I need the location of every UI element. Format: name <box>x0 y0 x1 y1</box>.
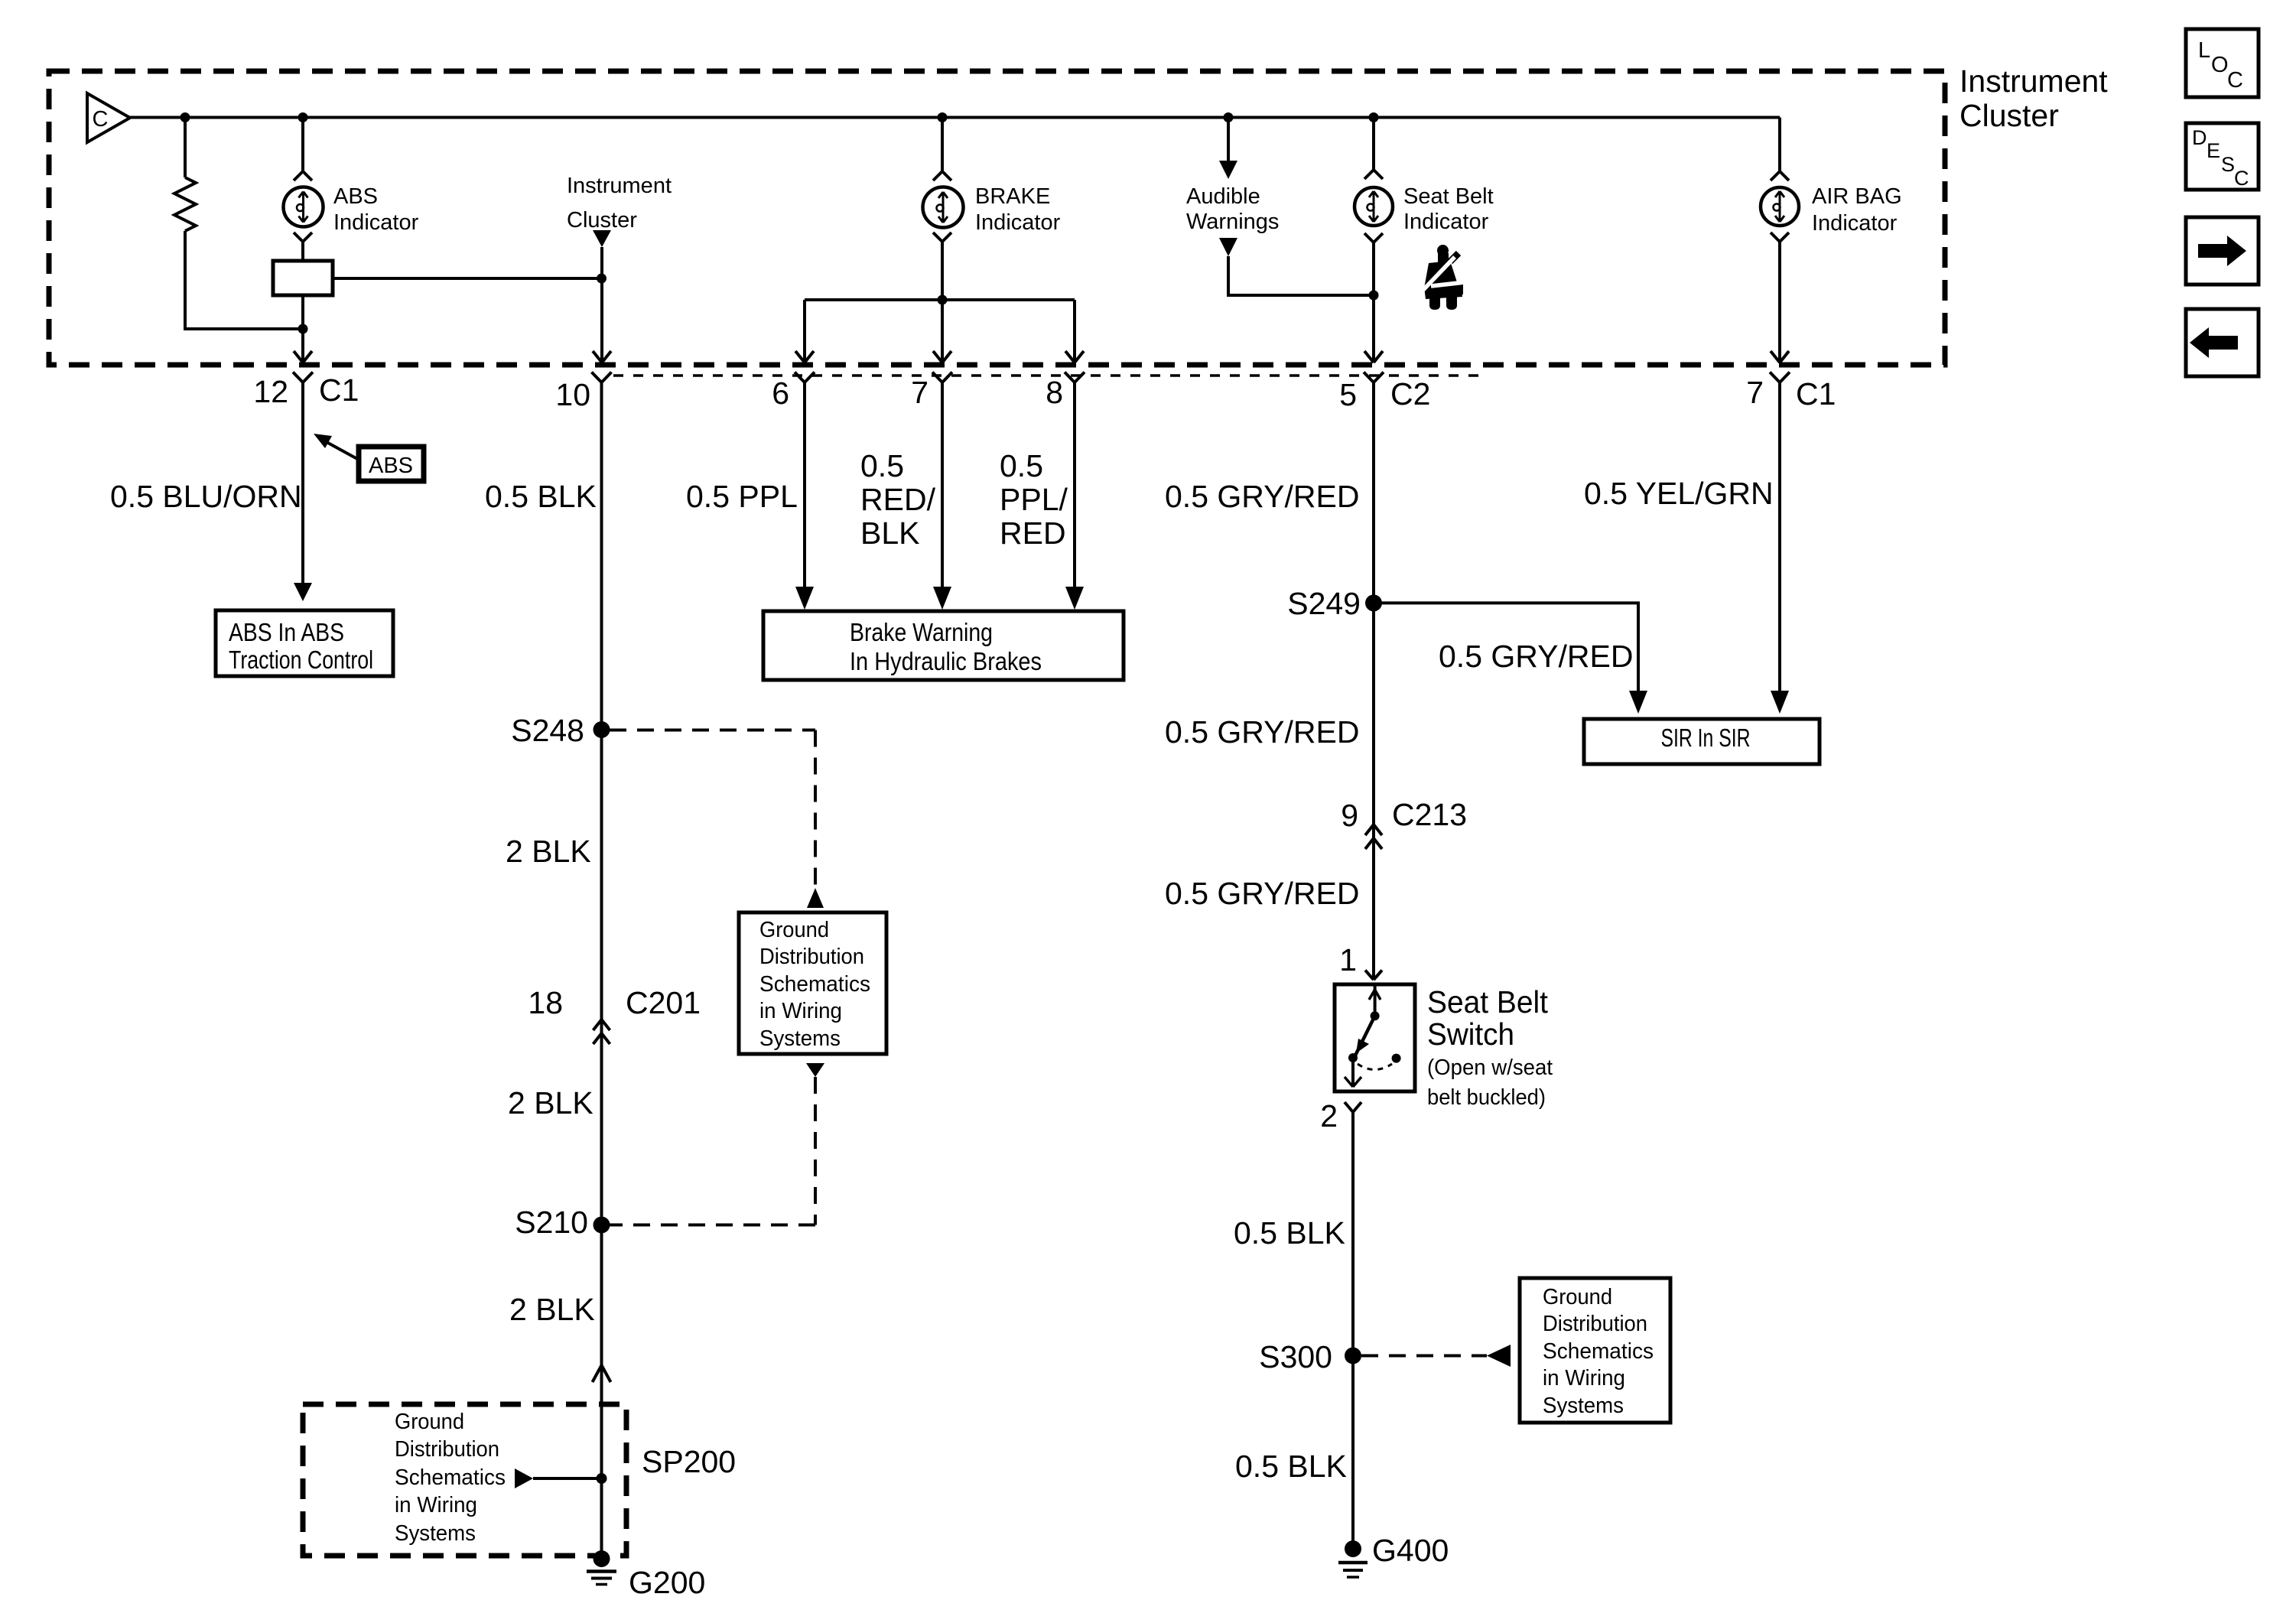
svg-text:1: 1 <box>1339 942 1357 977</box>
dashed link S248 to ground distribution box <box>610 729 815 732</box>
svg-text:0.5 BLU/ORN: 0.5 BLU/ORN <box>110 479 302 514</box>
svg-text:Traction Control: Traction Control <box>229 646 373 674</box>
svg-text:2 BLK: 2 BLK <box>509 1292 595 1327</box>
svg-text:2 BLK: 2 BLK <box>506 834 591 869</box>
junction resistor meets pin-12 wire <box>298 324 308 334</box>
block resistor module <box>273 261 333 295</box>
svg-text:9: 9 <box>1341 798 1358 833</box>
ground G400 <box>1345 1540 1361 1557</box>
svg-text:Schematics: Schematics <box>395 1465 506 1490</box>
wire audible warnings to seat belt line <box>1228 256 1374 295</box>
svg-text:AIR BAG: AIR BAG <box>1812 184 1902 209</box>
wire block to pin 12 <box>301 295 304 363</box>
svg-text:In Hydraulic Brakes: In Hydraulic Brakes <box>850 647 1042 675</box>
wire air bag to SIR <box>1778 382 1781 692</box>
svg-text:2 BLK: 2 BLK <box>508 1085 594 1120</box>
svg-text:ABS In ABS: ABS In ABS <box>229 618 344 646</box>
lamp AIR BAG Indicator <box>1761 187 1799 226</box>
svg-text:Distribution: Distribution <box>759 945 864 969</box>
svg-text:0.5 BLK: 0.5 BLK <box>1234 1215 1345 1251</box>
lamp BRAKE Indicator <box>923 187 964 228</box>
dashed link ground distribution box to S210 <box>814 1077 817 1225</box>
svg-text:Schematics: Schematics <box>1543 1339 1654 1364</box>
svg-text:10: 10 <box>555 377 590 412</box>
pin 7 C1 connector right <box>1770 372 1780 383</box>
svg-text:C: C <box>2227 68 2243 93</box>
wire pin 10 drop inside cluster <box>600 247 603 363</box>
block ABS In ABS Traction Control <box>216 610 393 676</box>
arrow out of ground distribution box (down) <box>806 1063 824 1077</box>
lamp Seat Belt Indicator <box>1355 187 1393 226</box>
svg-text:Brake Warning: Brake Warning <box>850 618 993 646</box>
svg-text:8: 8 <box>1046 375 1063 410</box>
svg-text:5: 5 <box>1339 377 1357 412</box>
svg-text:0.5: 0.5 <box>860 448 904 483</box>
wire seat belt to pin 5 <box>1372 242 1375 363</box>
wire audible warnings stub <box>1227 118 1230 162</box>
svg-text:RED: RED <box>1000 516 1066 551</box>
svg-text:Warnings: Warnings <box>1186 210 1279 234</box>
arrow SP200 pointer <box>515 1469 533 1488</box>
svg-text:Distribution: Distribution <box>1543 1312 1647 1336</box>
wire ABS indicator drop <box>301 118 304 172</box>
svg-text:0.5 BLK: 0.5 BLK <box>485 479 597 514</box>
svg-text:C: C <box>2234 167 2249 190</box>
svg-text:ABS: ABS <box>369 454 413 478</box>
svg-text:Cluster: Cluster <box>567 208 637 233</box>
splice S300 <box>1345 1348 1361 1364</box>
wire branch over pins 6-7-8 <box>805 298 1075 301</box>
resistor <box>174 177 196 231</box>
wire pin 10 to ground G200 <box>600 382 603 1365</box>
wire S249 to SIR <box>1374 603 1638 692</box>
connector C2 thin dashed line <box>613 374 1484 377</box>
svg-text:(Open w/seat: (Open w/seat <box>1427 1055 1553 1080</box>
svg-text:PPL/: PPL/ <box>1000 482 1068 517</box>
chevron into splice pack SP200 <box>593 1365 602 1382</box>
splice S248 <box>594 721 610 738</box>
svg-text:0.5: 0.5 <box>1000 448 1043 483</box>
wire BRAKE to branch <box>941 242 944 300</box>
svg-text:C1: C1 <box>319 372 359 408</box>
junction branch center <box>938 295 948 305</box>
Instrument Cluster dashed outline box <box>49 71 1945 365</box>
wire to pin 6 <box>803 300 806 363</box>
block Brake Warning In Hydraulic Brakes <box>763 611 1124 680</box>
svg-text:0.5 PPL: 0.5 PPL <box>686 479 798 514</box>
svg-text:0.5 GRY/RED: 0.5 GRY/RED <box>1165 714 1359 750</box>
junction on main bus at audible warnings <box>1224 112 1234 122</box>
wire pin 5 to seat belt switch <box>1372 382 1375 980</box>
ABS circuit callout box <box>359 447 424 481</box>
splice S249 <box>1365 594 1382 611</box>
wire into block <box>301 242 304 261</box>
svg-text:C: C <box>93 107 109 132</box>
svg-text:L: L <box>2198 38 2210 63</box>
svg-text:in Wiring: in Wiring <box>759 999 842 1023</box>
wire air bag indicator drop <box>1778 118 1781 172</box>
wire pin 12 to ABS traction control <box>301 382 304 584</box>
svg-text:S249: S249 <box>1287 586 1361 621</box>
svg-text:E: E <box>2207 139 2220 162</box>
svg-text:C2: C2 <box>1390 376 1430 411</box>
svg-text:C1: C1 <box>1796 376 1836 411</box>
svg-text:Ground: Ground <box>759 918 829 942</box>
svg-text:Seat Belt: Seat Belt <box>1403 184 1494 209</box>
svg-text:Indicator: Indicator <box>975 210 1061 235</box>
svg-text:O: O <box>2211 53 2229 77</box>
svg-text:18: 18 <box>528 985 563 1020</box>
svg-text:SP200: SP200 <box>642 1444 736 1479</box>
junction on main bus at ABS indicator <box>298 112 308 122</box>
svg-text:Indicator: Indicator <box>1403 210 1489 234</box>
svg-text:S210: S210 <box>515 1205 588 1240</box>
junction on main bus at resistor branch <box>180 112 190 122</box>
pin 10 connector <box>592 372 602 383</box>
svg-text:0.5 BLK: 0.5 BLK <box>1235 1449 1347 1484</box>
arrow into ground distribution box (up) <box>807 888 824 908</box>
arrow pointer to S300 <box>1487 1345 1511 1367</box>
switch Seat Belt Switch <box>1335 984 1415 1091</box>
svg-text:in Wiring: in Wiring <box>395 1493 477 1517</box>
svg-text:Instrument: Instrument <box>567 174 672 198</box>
svg-text:S248: S248 <box>511 713 584 748</box>
pin 12 C1 connector <box>293 372 303 383</box>
block SIR In SIR <box>1584 719 1820 764</box>
SP200 dashed box <box>303 1404 626 1556</box>
wire BRAKE indicator drop <box>941 118 944 172</box>
lamp ABS Indicator <box>284 187 324 227</box>
svg-text:6: 6 <box>772 376 789 411</box>
svg-text:ABS: ABS <box>333 184 378 209</box>
svg-text:Audible: Audible <box>1186 184 1260 209</box>
wire main bus <box>130 116 1780 119</box>
svg-text:0.5 GRY/RED: 0.5 GRY/RED <box>1165 479 1359 514</box>
pin 6 connector <box>795 372 805 383</box>
arrow Instrument Cluster label pointer <box>593 230 611 247</box>
svg-text:12: 12 <box>253 374 288 409</box>
svg-text:Ground: Ground <box>1543 1285 1612 1309</box>
wire switch to ground G400 <box>1351 1112 1355 1549</box>
svg-text:Distribution: Distribution <box>395 1437 499 1462</box>
wire to pin 7 <box>941 300 944 363</box>
svg-text:Indicator: Indicator <box>333 210 419 235</box>
wire pin 7 to brake warning box <box>941 382 944 589</box>
svg-text:SIR In SIR: SIR In SIR <box>1661 724 1751 752</box>
block Ground Distribution Schematics 2 <box>1520 1278 1670 1423</box>
svg-text:BLK: BLK <box>860 516 920 551</box>
splice S210 <box>594 1217 610 1234</box>
svg-text:Indicator: Indicator <box>1812 211 1898 236</box>
block Ground Distribution Schematics 1 <box>739 912 886 1054</box>
svg-text:D: D <box>2192 126 2207 149</box>
wire block output to cluster line <box>333 277 602 280</box>
svg-text:Systems: Systems <box>395 1521 476 1546</box>
svg-text:belt buckled): belt buckled) <box>1427 1085 1546 1110</box>
svg-text:0.5 GRY/RED: 0.5 GRY/RED <box>1165 876 1359 911</box>
pin 8 connector <box>1065 372 1075 383</box>
wire SP200 to G200 <box>600 1365 603 1559</box>
svg-text:2: 2 <box>1320 1098 1338 1134</box>
dashed link S300 to ground distribution box 2 <box>1361 1355 1487 1358</box>
svg-text:Switch: Switch <box>1427 1016 1514 1052</box>
svg-text:S300: S300 <box>1259 1339 1332 1374</box>
junction audible joins seat belt <box>1369 291 1379 301</box>
svg-text:BRAKE: BRAKE <box>975 184 1050 209</box>
svg-text:G200: G200 <box>629 1565 705 1600</box>
node C feed triangle <box>87 93 130 142</box>
wire seat belt indicator drop <box>1372 118 1375 171</box>
pin 5 C2 connector <box>1364 372 1374 383</box>
svg-text:in Wiring: in Wiring <box>1543 1366 1625 1390</box>
junction SP200 <box>597 1473 607 1484</box>
wire pin 8 to brake warning box <box>1073 382 1076 589</box>
svg-text:Systems: Systems <box>1543 1394 1624 1418</box>
junction on main bus at seat belt indicator <box>1369 112 1379 122</box>
svg-text:7: 7 <box>911 375 928 410</box>
svg-text:0.5 GRY/RED: 0.5 GRY/RED <box>1439 639 1633 674</box>
arrow ABS callout pointer <box>327 442 359 460</box>
junction block output <box>597 274 607 284</box>
svg-text:7: 7 <box>1746 375 1764 410</box>
left-arrow legend box <box>2186 309 2259 376</box>
wire pin 6 to brake warning box <box>803 382 806 589</box>
icon seat belt person <box>1422 245 1463 310</box>
svg-text:Cluster: Cluster <box>1959 98 2059 133</box>
junction on main bus at BRAKE indicator <box>938 112 948 122</box>
svg-text:RED/: RED/ <box>860 482 936 517</box>
svg-text:C201: C201 <box>626 985 701 1020</box>
wire to pin 8 <box>1073 300 1076 363</box>
svg-text:Seat Belt: Seat Belt <box>1427 984 1549 1020</box>
svg-text:C213: C213 <box>1392 797 1467 832</box>
LOC legend box <box>2186 29 2259 97</box>
svg-text:Instrument: Instrument <box>1959 63 2108 99</box>
arrow audible warnings pointer <box>1219 238 1237 256</box>
svg-text:Ground: Ground <box>395 1410 464 1434</box>
svg-text:Systems: Systems <box>759 1026 841 1051</box>
pin 7 connector <box>932 372 942 383</box>
DESC legend box <box>2186 123 2259 190</box>
svg-text:G400: G400 <box>1372 1533 1449 1568</box>
svg-text:Schematics: Schematics <box>759 972 870 997</box>
svg-text:S: S <box>2221 153 2235 176</box>
wire resistor branch drop <box>184 118 187 178</box>
wire resistor to junction <box>185 231 303 329</box>
right-arrow legend box <box>2186 217 2259 285</box>
wire air bag to pin 7 <box>1778 242 1781 363</box>
ground G200 <box>594 1550 610 1567</box>
svg-text:0.5 YEL/GRN: 0.5 YEL/GRN <box>1584 476 1774 511</box>
